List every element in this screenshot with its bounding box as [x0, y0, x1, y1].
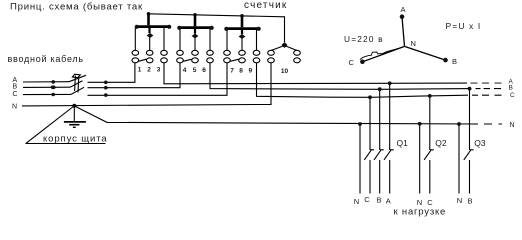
svg-text:N: N	[510, 122, 515, 129]
Q1 pole A blade	[384, 150, 394, 160]
node: top line to group3 riser	[240, 14, 244, 18]
switch S1: blade C	[71, 87, 84, 94]
phasor diagram: node B	[443, 58, 448, 63]
phasor diagram: node C	[360, 60, 365, 65]
svg-text:C: C	[510, 92, 515, 99]
svg-text:B: B	[509, 85, 513, 92]
wire: top meter supply line	[149, 14, 285, 42]
meter terminal group 2 (phase B, terminals 4 5 6)	[177, 15, 214, 74]
node: Q1 B tap	[378, 87, 382, 91]
Q2 pole C lower wire	[429, 160, 431, 194]
svg-text:1: 1	[138, 67, 142, 74]
switch S1: linkage bar 1	[74, 76, 77, 91]
node: dot on A line	[51, 80, 55, 84]
svg-text:N: N	[457, 196, 462, 205]
Q1 pole A lower wire	[389, 160, 391, 194]
meter terminal group 1 (phase A, terminals 1 2 3)	[132, 14, 171, 74]
node: Q3 N tap	[457, 122, 461, 126]
leader line to корпус щита annotation	[26, 106, 74, 143]
Q1 pole B blade	[374, 150, 384, 160]
Q1 pole C upper wire	[369, 97, 371, 150]
wire: bus A from terminal 3 to right side	[164, 63, 467, 84]
svg-text:Q1: Q1	[397, 138, 409, 148]
svg-text:7: 7	[230, 67, 234, 74]
wire: neutral bus dashed continuation	[484, 123, 502, 125]
Q2 pole C blade	[424, 150, 434, 160]
Q2 pole C upper wire	[429, 96, 431, 150]
wire: bus B from terminal 6 to right side	[210, 63, 472, 90]
switch S1: main input breaker blade A	[69, 75, 86, 81]
node: neutral junction at panel	[72, 104, 76, 108]
Q1 pole B lower wire	[379, 160, 381, 194]
svg-text:к нагрузке: к нагрузке	[394, 207, 447, 218]
Q3 pole B upper wire	[469, 89, 471, 150]
svg-text:U=220 в: U=220 в	[344, 34, 384, 44]
phasor diagram: line N to B	[405, 46, 446, 60]
wire: neutral line to terminal 10	[22, 63, 271, 106]
phasor diagram: line N to A	[402, 17, 405, 47]
node: top line to group1 riser	[147, 12, 151, 16]
phasor diagram: squiggle annotation on C arm	[360, 47, 403, 59]
wire: neutral bus from panel junction to right side	[74, 106, 478, 124]
svg-text:C: C	[13, 91, 18, 98]
node: Q2 N tap	[418, 122, 422, 126]
svg-text:B: B	[13, 84, 18, 91]
svg-text:10: 10	[281, 68, 289, 75]
svg-text:6: 6	[202, 67, 206, 74]
svg-text:N: N	[12, 104, 17, 111]
node: Q2 C tap	[428, 94, 432, 98]
Q3 pole N wire	[458, 124, 460, 194]
svg-text:4: 4	[183, 67, 187, 74]
node: Q1 N tap	[358, 122, 362, 126]
svg-text:5: 5	[193, 67, 197, 74]
node: Q3 B tap	[468, 87, 472, 91]
svg-text:8: 8	[239, 67, 243, 74]
Q2 pole N wire	[419, 124, 421, 194]
svg-text:A: A	[400, 5, 405, 14]
svg-text:3: 3	[157, 67, 161, 74]
wire: bus B dashed continuation	[476, 88, 502, 90]
Q1 pole N wire	[359, 124, 361, 194]
svg-text:B: B	[467, 196, 472, 205]
svg-text:N: N	[411, 39, 416, 48]
wire: bus C from terminal 9 to right side	[257, 63, 469, 98]
switch S1: blade B	[70, 81, 83, 88]
phasor diagram: node A	[400, 14, 405, 19]
svg-text:9: 9	[248, 67, 252, 74]
wire: phase B after switch to terminal 4	[88, 63, 181, 88]
node: dot on A after switch	[104, 81, 108, 85]
svg-text:N: N	[417, 198, 422, 207]
svg-text:A: A	[386, 196, 391, 205]
Q1 pole B upper wire	[379, 89, 381, 150]
underline of корпус щита	[26, 143, 106, 145]
node: dot on C after switch	[104, 93, 108, 97]
meter terminal group 4 (neutral, terminal 10)	[268, 42, 301, 75]
Q1 pole C blade	[364, 150, 374, 160]
svg-text:C: C	[427, 198, 433, 207]
Q1 pole C lower wire	[369, 160, 371, 194]
svg-text:P=U x I: P=U x I	[446, 21, 482, 31]
ground: panel earth symbol	[64, 106, 86, 128]
svg-text:счетчик: счетчик	[244, 0, 287, 11]
switch S1: handle cap	[72, 74, 80, 77]
svg-text:C: C	[364, 195, 370, 204]
svg-text:C: C	[349, 58, 355, 67]
svg-text:Q2: Q2	[435, 138, 447, 148]
node: Q1 A tap	[388, 81, 392, 85]
svg-text:корпус щита: корпус щита	[43, 134, 108, 145]
svg-text:2: 2	[147, 67, 151, 74]
Q3 pole B lower wire	[469, 160, 471, 194]
node: dot on B after switch	[104, 86, 108, 90]
svg-text:Принц. схема (бывает так: Принц. схема (бывает так	[10, 2, 143, 13]
svg-text:вводной кабель: вводной кабель	[8, 54, 84, 64]
svg-text:Q3: Q3	[474, 138, 486, 148]
node: dot on C line	[51, 93, 55, 97]
wire: phase B input line	[23, 86, 70, 88]
wire: phase C input line	[23, 93, 71, 95]
Q3 pole B blade	[464, 150, 474, 160]
meter terminal group 3 (phase C, terminals 7 8 9)	[224, 16, 261, 75]
node: Q1 C tap	[368, 95, 372, 99]
wire: bus A dashed continuation	[471, 82, 502, 84]
switch S1: linkage bar 2	[77, 76, 80, 93]
svg-text:B: B	[376, 196, 381, 205]
wire: phase C after switch to terminal 7	[88, 63, 228, 96]
wire: bus C dashed continuation	[472, 94, 502, 96]
svg-text:N: N	[354, 197, 359, 206]
phasor diagram: line N to C	[362, 46, 404, 61]
Q1 pole A upper wire	[389, 83, 391, 150]
node: dot on B line	[51, 85, 56, 89]
wire: phase A input line	[23, 81, 69, 83]
svg-text:B: B	[452, 57, 457, 66]
wire: phase A after switch to terminal 1	[88, 63, 135, 83]
node: top line to group2 riser	[193, 13, 197, 17]
